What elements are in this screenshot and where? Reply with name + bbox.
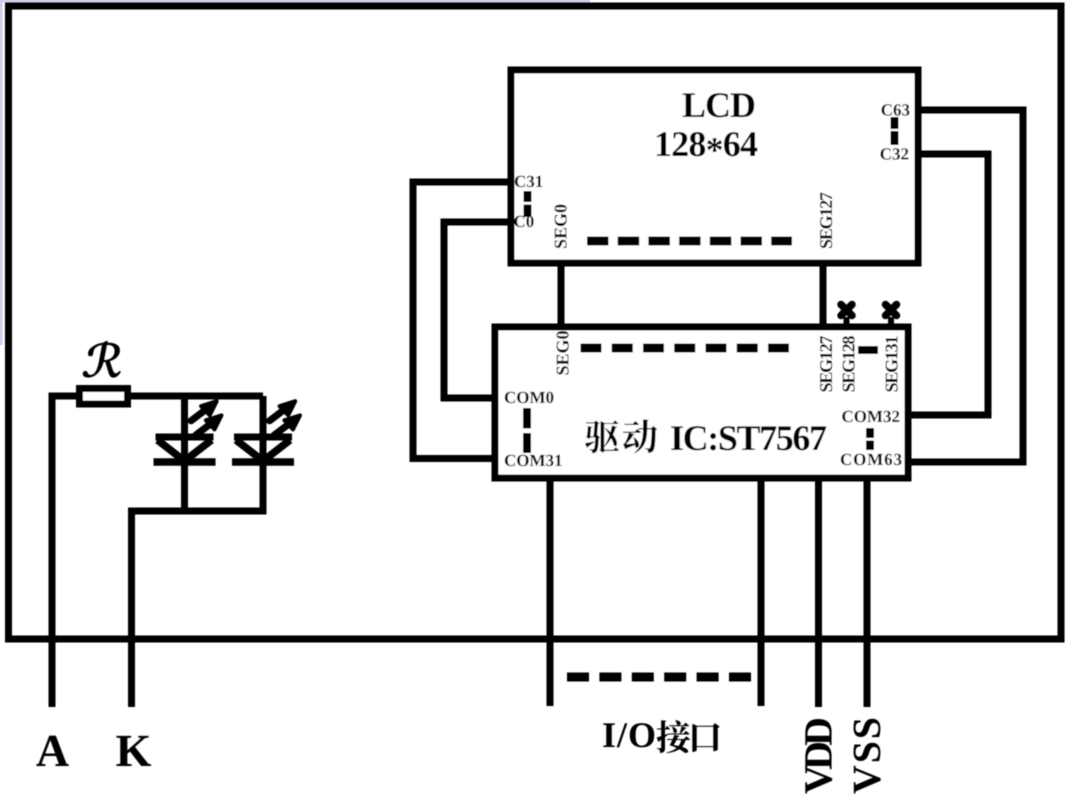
pin ellipsis COM0..COM31: [523, 408, 531, 453]
pin label COM32: [842, 411, 852, 422]
label VSS: [854, 719, 881, 794]
wire C31 to COM31 (LCD left to driver left): [413, 182, 511, 459]
LED D2 (backlight): [232, 401, 300, 462]
pin ellipsis COM32..COM63: [866, 428, 874, 450]
LED D1 (backlight): [154, 401, 222, 462]
pin label C63: [882, 104, 892, 115]
pin ellipsis C63..C32: [891, 117, 899, 145]
outer frame border: [9, 6, 1062, 639]
pin label COM63: [841, 454, 851, 465]
no-connect X mark above SEG128: [844, 317, 850, 327]
resistor R body: [80, 389, 128, 405]
label I/O interface: [603, 720, 719, 753]
pin label COM0: [505, 392, 515, 403]
scan edge artifact top: [0, 0, 590, 3]
no-connect X mark above SEG131: [888, 317, 894, 327]
label 驱动 IC:ST7567: [585, 419, 826, 453]
wire VDD: [815, 478, 822, 707]
pin label SEG127 (driver): [820, 336, 832, 392]
pin label C32: [881, 148, 891, 159]
wire SEG127 (LCD bottom to driver top): [820, 263, 827, 327]
pin label SEG128: [843, 336, 855, 391]
driver IC box: [495, 327, 908, 478]
LCD module box: [511, 70, 918, 263]
pin label SEG0 (LCD): [555, 205, 567, 248]
terminal label K: [116, 736, 151, 766]
wire I/O line 1 (driver bottom): [547, 478, 554, 706]
segment ellipsis dashes (LCD): [587, 237, 792, 246]
wire anode A vertical: [49, 393, 56, 708]
wire C32 to COM32 (LCD right to driver right): [908, 154, 988, 415]
terminal label A: [36, 736, 68, 766]
label VDD: [805, 719, 832, 794]
pin label SEG131: [886, 336, 898, 391]
pin label COM31: [505, 455, 515, 466]
label LCD: [683, 93, 705, 117]
wire VSS: [864, 478, 871, 707]
label R (script): [83, 341, 121, 377]
wire C0 to COM0 (LCD left to driver left): [444, 222, 511, 398]
wire I/O line 2 (driver bottom): [758, 478, 765, 706]
I/O ellipsis dashes: [567, 673, 753, 682]
segment ellipsis dashes (driver): [581, 344, 790, 353]
wire LED2 vertical: [260, 396, 267, 511]
wire LED top rail: [52, 393, 263, 400]
pin ellipsis C31..C0: [524, 191, 532, 217]
pin label SEG127 (LCD): [820, 192, 832, 248]
pin ellipsis SEG128..SEG131: [858, 346, 878, 354]
wire LED bottom rail and cathode K: [132, 508, 264, 708]
pin label C0: [514, 216, 524, 227]
pin label SEG0 (driver): [557, 331, 569, 374]
label 128*64: [657, 132, 670, 156]
wire LED1 vertical: [181, 396, 188, 511]
scan edge artifact left: [0, 0, 3, 345]
wire C63 to COM63 (LCD right to driver right): [908, 110, 1023, 462]
wire SEG0 (LCD bottom to driver top): [558, 263, 565, 327]
pin label C31: [515, 176, 525, 187]
